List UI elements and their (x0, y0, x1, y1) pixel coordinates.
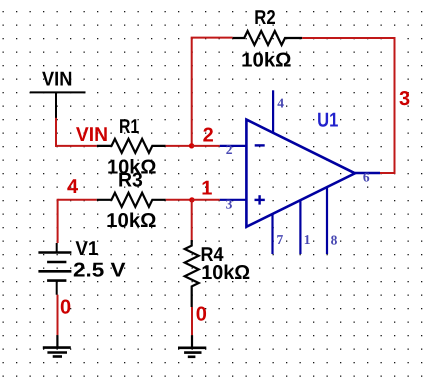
svg-text:R3: R3 (118, 170, 143, 192)
wire R3 to node 1 (166, 199, 193, 201)
resistor R2 (233, 31, 303, 45)
svg-text:R2: R2 (254, 7, 275, 29)
svg-text:10kΩ: 10kΩ (241, 50, 291, 72)
wire output vertical (394, 37, 396, 174)
wire output horizontal (380, 172, 395, 174)
svg-text:R1: R1 (119, 116, 139, 138)
svg-text:V1: V1 (75, 238, 98, 260)
wire node1 to R4 (191, 200, 193, 240)
svg-text:7: 7 (277, 232, 284, 247)
wire node1 to pin3 (192, 199, 220, 201)
svg-text:10kΩ: 10kΩ (201, 262, 250, 284)
svg-text:10kΩ: 10kΩ (106, 210, 156, 232)
junction node 2 (189, 143, 194, 148)
svg-text:U1: U1 (317, 110, 338, 132)
wire feedback top horizontal (191, 37, 233, 39)
svg-text:6: 6 (363, 170, 370, 185)
svg-text:VIN: VIN (76, 124, 108, 146)
svg-text:2.5 V: 2.5 V (73, 259, 126, 281)
wire R1 to node 2 (166, 145, 193, 147)
resistor R3 (97, 193, 166, 207)
svg-text:0: 0 (60, 296, 71, 318)
ground at R4 (178, 335, 206, 357)
port VIN (30, 92, 86, 118)
wire net VIN horizontal (55, 145, 97, 147)
svg-text:0: 0 (196, 304, 207, 326)
svg-text:3: 3 (399, 88, 410, 110)
svg-text:4: 4 (277, 96, 284, 111)
junction node 1 (189, 197, 194, 202)
svg-text:2: 2 (203, 125, 214, 147)
svg-text:2: 2 (226, 142, 233, 157)
wire V1 to ground (57, 295, 59, 335)
wire node 4 vertical to V1 (57, 199, 59, 243)
wire R4 to ground (191, 307, 193, 335)
wire R2 to output vertical run (302, 37, 394, 39)
wire node 4 horizontal to R3 (58, 199, 97, 201)
svg-text:VIN: VIN (42, 69, 72, 91)
resistor R4 (185, 240, 199, 307)
svg-text:8: 8 (331, 232, 338, 247)
wire feedback vertical (191, 38, 193, 146)
svg-text:3: 3 (226, 196, 233, 211)
ground at V1 (43, 335, 71, 356)
voltage source V1 (38, 243, 71, 295)
svg-text:1: 1 (201, 178, 212, 200)
resistor R1 (97, 139, 166, 153)
wire net VIN vertical (55, 118, 57, 147)
svg-text:4: 4 (67, 176, 79, 198)
svg-text:1: 1 (304, 232, 311, 247)
op-amp U1 (220, 90, 380, 254)
wire node2 to pin2 (192, 145, 220, 147)
